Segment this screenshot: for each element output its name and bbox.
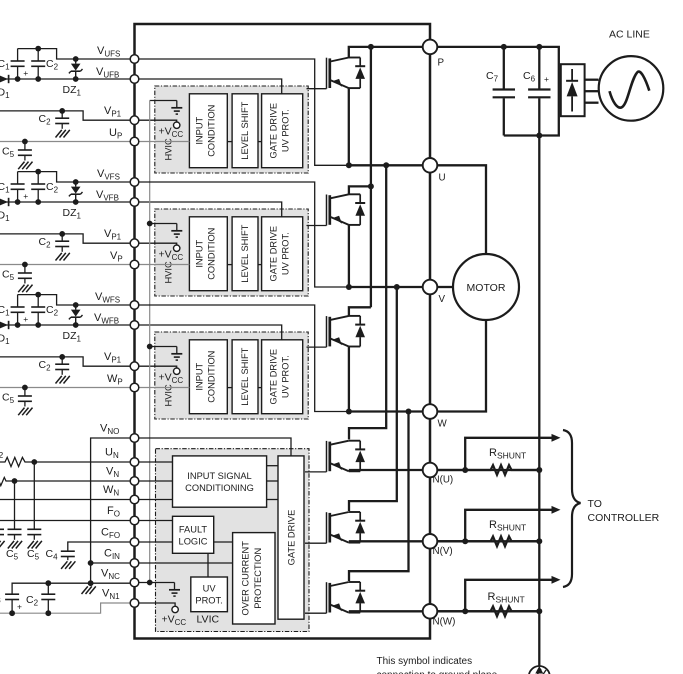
wire FAULT LOGIC to UV PROT: [207, 553, 209, 577]
node N(W): [423, 604, 438, 619]
op-amp U1: HVIC 1: [139, 86, 309, 173]
wire VNO left drop: [91, 438, 131, 583]
wire WN row: [0, 499, 173, 501]
svg-text:OVER CURRENT: OVER CURRENT: [241, 541, 251, 616]
transistor Q1 (U high side IGBT): [327, 57, 366, 88]
wire N(V) row: [349, 540, 540, 542]
svg-text:PROTECTION: PROTECTION: [253, 548, 263, 609]
ground (hatch) at VNC/VNO junction: [82, 586, 96, 594]
wire Q3 emitter to W: [348, 347, 350, 412]
ground (hatch) of C4: [61, 561, 75, 569]
svg-text:INPUT SIGNAL: INPUT SIGNAL: [187, 471, 251, 481]
svg-text:W: W: [438, 419, 448, 430]
transistor Q3 (W high side IGBT): [327, 316, 366, 347]
shunt resistor RSHUNT (U): [437, 465, 539, 475]
HVIC 3: [139, 332, 309, 419]
wire W feed to low side: [349, 412, 409, 582]
wire V feed to low side: [349, 287, 397, 511]
wire VWFS to W output: [139, 305, 349, 412]
svg-text:UV: UV: [203, 584, 217, 594]
shunt resistor RSHUNT (V): [437, 537, 539, 547]
+Vcc terminal LVIC: [172, 606, 178, 612]
transistor Q2 (V high side IGBT): [327, 194, 366, 225]
svg-text:P: P: [438, 58, 445, 69]
OVER CURRENT PROTECTION box: [233, 533, 275, 624]
capacitor C6 (electrolytic): [538, 47, 540, 89]
wire V output row: [349, 286, 423, 288]
wire W to motor: [437, 320, 486, 412]
INPUT SIGNAL CONDITIONING box: [173, 456, 267, 507]
wire N(U) row: [349, 469, 540, 471]
svg-text:GATE DRIVE: GATE DRIVE: [287, 510, 297, 566]
wire CIN left: [91, 562, 131, 564]
wire gate HVIC1: [307, 88, 327, 90]
svg-text:connection to ground plane.: connection to ground plane.: [377, 670, 500, 674]
transistor Q4 (U low side IGBT): [327, 441, 366, 472]
wire CFO row: [139, 541, 173, 543]
node VNO pin: [130, 434, 139, 443]
wire VNC row to ground: [139, 582, 175, 584]
node WN pin: [130, 495, 139, 504]
AC connector lines: [585, 79, 599, 81]
node V: [423, 280, 438, 295]
wire N(W) row: [349, 610, 540, 612]
svg-text:CONTROLLER: CONTROLLER: [588, 512, 660, 524]
wire VN1 return (grey): [0, 603, 130, 613]
resistor on VN (clipped): [0, 476, 15, 485]
node P: [423, 40, 438, 55]
wire VNC left: [12, 583, 130, 594]
wire U output row: [349, 164, 423, 166]
wire VN row: [15, 480, 173, 482]
rectifier bridge: [561, 64, 585, 116]
transistor Q5 (V low side IGBT): [327, 512, 366, 543]
node P feed junction: [368, 44, 374, 50]
wire CFO to C4: [68, 542, 131, 551]
HVIC 2: [139, 209, 309, 296]
svg-text:N(V): N(V): [433, 546, 453, 557]
node VNC pin: [130, 578, 139, 587]
node N(V): [423, 534, 438, 549]
sense tap arrow (W): [465, 580, 552, 612]
sense tap arrow (U): [465, 438, 552, 470]
wire P feed vertical: [370, 47, 372, 307]
DC negative bus: [538, 136, 540, 667]
node CIN pin: [130, 559, 139, 568]
LVIC box link stubs: [267, 465, 278, 467]
node CIN junction on VNO drop: [88, 560, 94, 566]
motor M1: [453, 254, 519, 320]
brace to controller: [563, 430, 581, 587]
svg-text:TO: TO: [588, 498, 602, 510]
UV PROT box: [191, 577, 228, 612]
node VN pin: [130, 477, 139, 486]
wire gate LVIC to Q6: [305, 612, 327, 614]
svg-text:V: V: [439, 294, 446, 305]
wire VN1 to +Vcc: [139, 603, 176, 606]
svg-text:This symbol indicates: This symbol indicates: [377, 656, 473, 667]
svg-text:CONDITIONING: CONDITIONING: [185, 483, 254, 493]
svg-text:FAULT: FAULT: [179, 525, 208, 535]
wire U feed to low side: [349, 165, 386, 439]
wire U to motor: [437, 165, 486, 254]
svg-text:N(U): N(U): [433, 475, 454, 486]
capacitor C5 on UN: [33, 462, 35, 529]
HVIC com vertical wire: [149, 101, 151, 583]
node CFO pin: [130, 538, 139, 547]
wire P to rectifier: [437, 47, 559, 136]
node C7 top: [501, 44, 507, 50]
ground plane symbol: [529, 666, 550, 674]
wire VVFS to V output: [139, 182, 349, 287]
svg-text:2: 2: [0, 450, 4, 460]
wire Q2 collector to P feed: [349, 186, 371, 194]
diode in rectifier: [571, 69, 573, 80]
wire gate HVIC3: [307, 346, 327, 348]
svg-text:N(W): N(W): [433, 617, 456, 628]
node W: [423, 404, 438, 419]
node C6 bottom: [536, 133, 542, 139]
svg-text:AC LINE: AC LINE: [609, 29, 650, 41]
wire VUFS to U output: [139, 59, 349, 165]
svg-text:PROT.: PROT.: [195, 596, 222, 606]
node N(U): [423, 463, 438, 478]
svg-text:U: U: [439, 173, 446, 184]
capacitor C4: [61, 551, 75, 556]
node FO pin: [130, 516, 139, 525]
wire Q1 emitter to U: [348, 88, 350, 165]
transistor Q6 (W low side IGBT): [327, 582, 366, 613]
wire FAULT LOGIC to OCP: [214, 541, 233, 543]
wire gate LVIC to Q5: [305, 542, 327, 544]
capacitor C2 bottom: [47, 583, 49, 594]
wire VNO to gate drive: [130, 438, 291, 456]
wire UN row: [34, 461, 172, 463]
node U: [423, 158, 438, 173]
node C6 top: [536, 44, 542, 50]
wire V to motor: [437, 286, 453, 288]
wire CIN row: [139, 562, 233, 564]
resistor R2 on UN: [0, 457, 34, 466]
capacitor C7: [503, 47, 505, 89]
AC LINE source: [599, 56, 664, 121]
FAULT LOGIC box: [173, 516, 214, 553]
wire Q2 emitter to V: [348, 225, 350, 287]
shunt resistor RSHUNT (W): [437, 607, 539, 617]
GATE DRIVE box: [278, 456, 304, 619]
wire gate HVIC2: [307, 225, 327, 227]
wire Q1 collector to P bus: [349, 47, 430, 58]
capacitor C3 (electrolytic, clipped): [5, 594, 19, 599]
ground symbol LVIC: [169, 583, 180, 597]
svg-text:+: +: [17, 602, 22, 612]
svg-text:MOTOR: MOTOR: [467, 282, 506, 294]
LVIC block border: [156, 449, 310, 632]
capacitor C5 on WN (clipped): [0, 529, 4, 534]
node VN1 pin: [130, 599, 139, 608]
svg-text:LOGIC: LOGIC: [179, 537, 208, 547]
node UN pin: [130, 458, 139, 467]
capacitor C5 on VN: [14, 481, 16, 529]
module package outline: [135, 24, 431, 639]
wire W output row: [349, 410, 423, 412]
wire FO row: [0, 520, 173, 522]
sense tap arrow (V): [465, 510, 552, 542]
svg-text:LVIC: LVIC: [197, 614, 220, 626]
svg-text:+: +: [544, 74, 549, 84]
wire Q3 collector to P feed: [349, 307, 371, 316]
wire gate LVIC to Q4: [305, 471, 327, 473]
